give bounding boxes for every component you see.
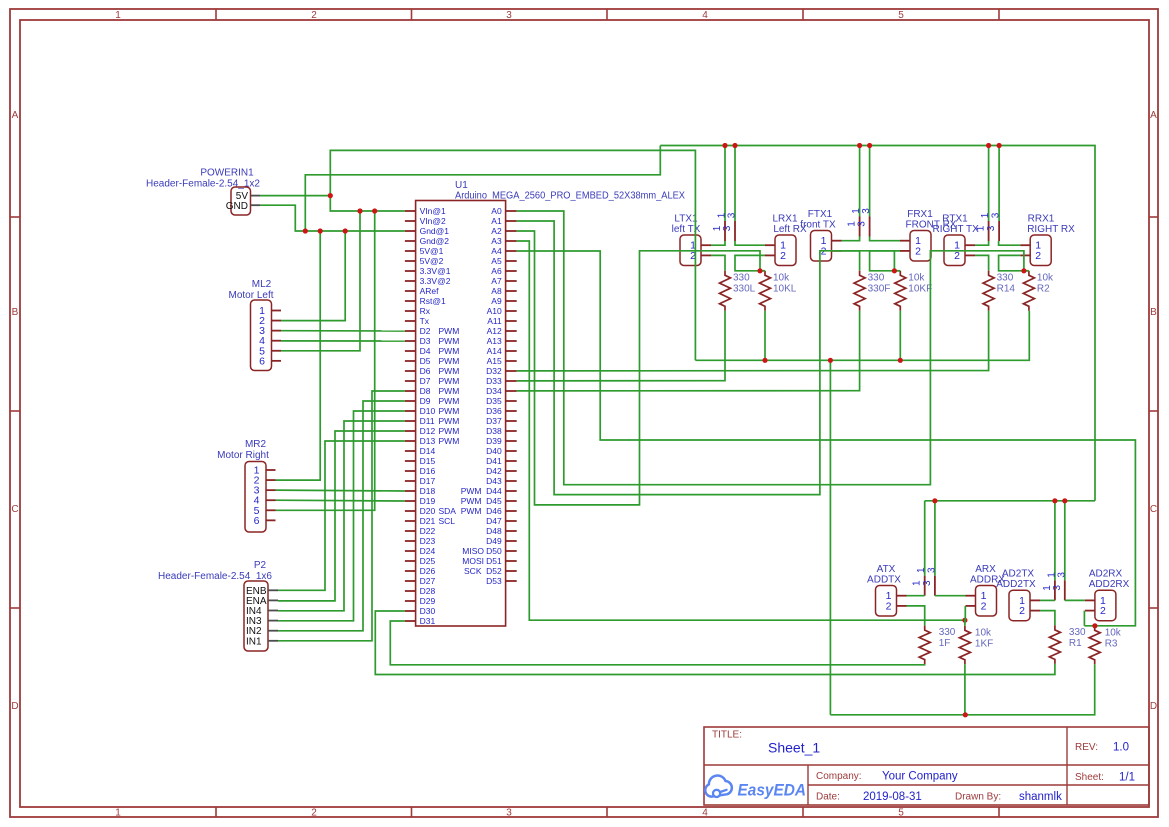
svg-text:1: 1	[115, 808, 121, 819]
connector AD2TX ADD2TX	[996, 569, 1036, 621]
svg-text:3: 3	[722, 225, 733, 231]
svg-text:3.3V@1: 3.3V@1	[420, 266, 451, 276]
header pin R3	[998, 146, 1000, 242]
svg-text:D52: D52	[486, 566, 502, 576]
svg-text:D9: D9	[420, 396, 431, 406]
wire R14 bottom to U1 D32	[517, 311, 989, 371]
svg-text:D45: D45	[486, 496, 502, 506]
svg-text:330: 330	[1069, 627, 1086, 638]
svg-text:10k: 10k	[1037, 272, 1054, 283]
wire lower pullup rail	[830, 664, 1094, 715]
svg-text:Header-Female-2.54_1x2: Header-Female-2.54_1x2	[146, 179, 260, 190]
wire RX pin1 to vertical pin 3	[999, 241, 1021, 245]
node A3 1KF junction	[962, 618, 967, 623]
svg-text:A7: A7	[491, 276, 502, 286]
wire U1 A4 to group5 divider	[517, 251, 1136, 626]
resistor 10KF 10k	[895, 271, 932, 311]
wire bus B lower groups	[925, 500, 1095, 502]
wire P2 IN3->D10	[278, 411, 405, 621]
wire TX pin2 down to 330 resistor	[711, 255, 725, 270]
wire GND from POWERIN1	[260, 205, 405, 231]
svg-text:D34: D34	[486, 386, 502, 396]
svg-text:AD2TX: AD2TX	[1002, 569, 1035, 580]
svg-text:Tx: Tx	[420, 316, 430, 326]
P2 pin ENA	[246, 596, 278, 607]
connector RRX1 RIGHT RX	[1027, 214, 1075, 266]
svg-text:SDA: SDA	[439, 506, 457, 516]
svg-text:330F: 330F	[868, 283, 891, 294]
svg-text:2: 2	[1035, 250, 1041, 262]
AD2RX pin 2	[1085, 605, 1106, 617]
svg-text:Date:: Date:	[816, 792, 840, 803]
wire ATX pin2 down to 1F resistor	[907, 606, 925, 626]
svg-text:A: A	[1150, 110, 1157, 121]
svg-text:A10: A10	[487, 306, 502, 316]
node A0 R2 junction	[1021, 268, 1026, 273]
header pin L3 pin number 3	[722, 212, 738, 231]
svg-text:D17: D17	[420, 476, 436, 486]
header pin A3n	[934, 501, 936, 596]
node bus1 tap	[857, 143, 862, 148]
svg-text:PWM: PWM	[439, 366, 460, 376]
wire GND to MR2 pin2	[276, 231, 321, 480]
svg-text:D19: D19	[420, 496, 436, 506]
node GND junction	[303, 228, 308, 233]
svg-text:D14: D14	[420, 446, 436, 456]
svg-text:D47: D47	[486, 516, 502, 526]
svg-text:RRX1: RRX1	[1028, 214, 1055, 225]
svg-text:EasyEDA: EasyEDA	[738, 781, 807, 800]
svg-text:AD2RX: AD2RX	[1089, 569, 1123, 580]
svg-text:PWM: PWM	[439, 406, 460, 416]
svg-text:D10: D10	[420, 406, 436, 416]
svg-text:A6: A6	[491, 266, 502, 276]
wire RX pin1 to vertical pin 3	[735, 241, 765, 245]
wire junction to 10k top	[760, 270, 765, 272]
svg-text:MISO: MISO	[462, 546, 484, 556]
svg-text:ML2: ML2	[252, 279, 272, 290]
svg-text:SCK: SCK	[464, 566, 482, 576]
wire GND riser to bus3	[305, 146, 660, 232]
svg-text:D22: D22	[420, 526, 436, 536]
node GND MR2 tap	[318, 228, 323, 233]
wire ATX pin1 to vertical pin 1	[907, 595, 925, 597]
U1 right pin names	[461, 206, 502, 586]
connector ARX ADDRX	[970, 564, 1005, 616]
svg-text:B: B	[12, 307, 19, 318]
svg-text:A3: A3	[491, 236, 502, 246]
svg-text:LTX1: LTX1	[674, 214, 698, 225]
svg-text:2: 2	[780, 250, 786, 262]
POWERIN1 pin GND	[226, 201, 260, 212]
svg-text:330: 330	[939, 627, 956, 638]
svg-text:D13: D13	[420, 436, 436, 446]
svg-text:A8: A8	[491, 286, 502, 296]
svg-text:A13: A13	[487, 336, 502, 346]
svg-text:D38: D38	[486, 426, 502, 436]
ML2 pin 1	[259, 305, 281, 317]
svg-text:front TX: front TX	[800, 220, 836, 231]
connector FTX1 front TX	[800, 209, 836, 261]
svg-text:330: 330	[868, 272, 885, 283]
svg-text:A1: A1	[491, 216, 502, 226]
resistor 10KL 10k	[760, 271, 797, 311]
RTX1 pin 1	[954, 240, 975, 252]
MR2 pin 1	[254, 465, 276, 477]
svg-text:1F: 1F	[939, 638, 951, 649]
svg-text:D21: D21	[420, 516, 436, 526]
wire 330F bottom to U1 D34	[517, 311, 860, 391]
svg-text:PWM: PWM	[439, 326, 460, 336]
node A1 10KF junction	[892, 268, 897, 273]
ATX pin 2	[886, 600, 907, 612]
node GND ML2 tap	[343, 228, 348, 233]
wire U1 D31 to 1F bottom	[390, 621, 924, 665]
wire P2 IN4->D11	[278, 421, 405, 611]
wire U1 D30 to R1 bottom	[375, 611, 1055, 675]
MR2 pin 4	[254, 495, 276, 507]
svg-text:D24: D24	[420, 546, 436, 556]
wire 10KF bottom	[899, 311, 901, 361]
node 10KF busA	[898, 358, 903, 363]
header pin R1 pin number 1	[976, 212, 992, 231]
svg-text:1: 1	[115, 10, 121, 21]
header pin A1n pin number 1	[912, 567, 928, 586]
svg-text:Drawn By:: Drawn By:	[955, 792, 1001, 803]
svg-text:left TX: left TX	[672, 224, 701, 235]
U1 left pin stubs	[405, 211, 416, 621]
ATX pin 1	[886, 590, 907, 602]
svg-text:2: 2	[886, 600, 892, 612]
svg-text:shanmlk: shanmlk	[1019, 791, 1062, 803]
svg-text:D33: D33	[486, 376, 502, 386]
node busB tap	[932, 498, 937, 503]
node busB tap	[1052, 498, 1057, 503]
svg-text:PWM: PWM	[439, 436, 460, 446]
svg-text:D49: D49	[486, 536, 502, 546]
svg-text:D37: D37	[486, 416, 502, 426]
wire U1 A0 to group3 divider	[517, 211, 1024, 485]
svg-text:PWM: PWM	[461, 486, 482, 496]
svg-text:D: D	[11, 701, 18, 712]
node 1KF lower rail	[963, 712, 968, 717]
svg-text:PWM: PWM	[439, 346, 460, 356]
node 10KL busA	[762, 358, 767, 363]
svg-text:MOSI: MOSI	[462, 556, 484, 566]
svg-text:Rst@1: Rst@1	[420, 296, 446, 306]
header pin L3	[734, 146, 736, 242]
svg-text:ADD2TX: ADD2TX	[996, 579, 1036, 590]
MR2 pin 2	[254, 475, 276, 487]
wire junction to 10k top	[895, 270, 900, 272]
svg-text:D31: D31	[420, 616, 436, 626]
wire TX pin1 to vertical pin 1	[975, 241, 989, 245]
RRX1 pin 2	[1020, 250, 1041, 262]
wire U1 A3 to group4 divider	[517, 241, 965, 620]
svg-text:P2: P2	[254, 560, 267, 571]
svg-text:A11: A11	[487, 316, 502, 326]
svg-text:D28: D28	[420, 586, 436, 596]
svg-text:D16: D16	[420, 466, 436, 476]
svg-text:SCL: SCL	[439, 516, 456, 526]
svg-text:D32: D32	[486, 366, 502, 376]
U1 right pin stubs	[506, 211, 517, 581]
svg-text:PWM: PWM	[439, 376, 460, 386]
svg-text:1KF: 1KF	[975, 638, 993, 649]
wire TX pin2 down to 330 resistor	[842, 251, 860, 271]
wire 5V riser to bus	[330, 150, 695, 360]
svg-text:D20: D20	[420, 506, 436, 516]
svg-text:D6: D6	[420, 366, 431, 376]
wire GND to ML2 pin2	[281, 231, 345, 321]
svg-text:D5: D5	[420, 356, 431, 366]
ML2 pin 2	[259, 315, 281, 327]
LRX1 pin 2	[765, 250, 786, 262]
svg-text:10k: 10k	[908, 272, 925, 283]
connector AD2RX ADD2RX	[1089, 569, 1130, 621]
svg-text:3: 3	[991, 212, 1002, 218]
svg-text:3: 3	[506, 10, 512, 21]
svg-text:U1: U1	[455, 180, 468, 191]
connector MR2 Motor Right	[217, 439, 269, 532]
svg-text:B: B	[1150, 307, 1157, 318]
svg-text:D48: D48	[486, 526, 502, 536]
svg-text:2: 2	[311, 10, 317, 21]
svg-text:3: 3	[986, 225, 997, 231]
resistor 1F 330	[919, 626, 956, 665]
svg-text:Gnd@1: Gnd@1	[420, 226, 450, 236]
svg-text:PWM: PWM	[439, 386, 460, 396]
svg-text:A5: A5	[491, 256, 502, 266]
svg-text:3: 3	[506, 808, 512, 819]
MR2 pin 6	[254, 515, 276, 527]
ML2 pin 3	[259, 325, 281, 337]
svg-text:D2: D2	[420, 326, 431, 336]
resistor R14 330	[983, 271, 1015, 311]
resistor R3 10k	[1089, 626, 1122, 665]
header pin A1n	[924, 501, 926, 596]
title block Sheet number	[1075, 772, 1135, 784]
svg-text:D7: D7	[420, 376, 431, 386]
P2 pin ENB	[246, 586, 278, 597]
wire 5V to MR2 pin5	[276, 211, 375, 510]
AD2TX pin 1	[1019, 595, 1040, 607]
frame column numbers	[115, 10, 904, 819]
svg-text:Gnd@2: Gnd@2	[420, 236, 450, 246]
svg-text:D43: D43	[486, 476, 502, 486]
P2 pin IN2	[246, 626, 278, 637]
wire AD2TX pin1 to vertical pin 1	[1040, 599, 1055, 601]
svg-text:D42: D42	[486, 466, 502, 476]
svg-text:A15: A15	[487, 356, 502, 366]
svg-text:Sheet_1: Sheet_1	[768, 740, 820, 756]
svg-text:A14: A14	[487, 346, 502, 356]
svg-text:2: 2	[1019, 605, 1025, 617]
svg-text:5: 5	[898, 808, 904, 819]
svg-text:1.0: 1.0	[1113, 742, 1129, 754]
svg-text:D: D	[1150, 701, 1157, 712]
svg-text:FTX1: FTX1	[808, 209, 833, 220]
wire P2 ENA->D12	[278, 431, 405, 601]
svg-text:3: 3	[922, 580, 933, 586]
ML2 pin 4	[259, 335, 281, 347]
svg-text:1/1: 1/1	[1119, 772, 1135, 784]
svg-text:10k: 10k	[773, 272, 790, 283]
header pin R3 pin number 3	[986, 212, 1002, 231]
svg-text:6: 6	[254, 515, 260, 527]
connector RTX1 RIGHT TX	[933, 214, 980, 266]
title block Company	[816, 771, 958, 783]
svg-text:PWM: PWM	[439, 426, 460, 436]
svg-text:ARX: ARX	[975, 564, 996, 575]
U1 left pin names	[420, 206, 460, 626]
svg-text:D35: D35	[486, 396, 502, 406]
svg-text:A12: A12	[487, 326, 502, 336]
AD2TX pin 2	[1019, 605, 1040, 617]
RTX1 pin 2	[954, 250, 975, 262]
svg-text:10KF: 10KF	[908, 283, 932, 294]
svg-text:LRX1: LRX1	[772, 214, 797, 225]
connector ATX ADDTX	[867, 564, 901, 616]
wire 5V to ML2 pin5	[281, 211, 360, 351]
svg-text:D36: D36	[486, 406, 502, 416]
svg-text:Sheet:: Sheet:	[1075, 772, 1104, 783]
svg-text:D27: D27	[420, 576, 436, 586]
svg-text:R2: R2	[1037, 283, 1050, 294]
svg-text:RIGHT TX: RIGHT TX	[933, 224, 980, 235]
wire GND bus1 top	[660, 146, 1095, 501]
IC U1 Arduino_MEGA_2560_PRO_EMBED_52X38mm_ALEX	[416, 180, 686, 626]
svg-text:TITLE:: TITLE:	[712, 730, 742, 741]
P2 pin IN1	[246, 636, 278, 647]
wire A2 jog to 10KL top	[760, 270, 765, 272]
svg-text:MR2: MR2	[245, 439, 267, 450]
svg-text:D30: D30	[420, 606, 436, 616]
wire TX pin1 to vertical pin 1	[842, 237, 860, 241]
svg-text:10k: 10k	[1105, 627, 1122, 638]
svg-text:330: 330	[997, 272, 1014, 283]
node 5V MR2 tap	[372, 208, 377, 213]
FRX1 pin 1	[900, 235, 921, 247]
frame row letters	[11, 110, 1157, 712]
LTX1 pin 1	[690, 240, 711, 252]
wire P2 IN2->D9	[278, 401, 405, 631]
wire U1 A2 to group1 divider	[517, 231, 760, 505]
svg-text:FRX1: FRX1	[907, 209, 933, 220]
AD2RX pin 1	[1085, 595, 1106, 607]
svg-text:330: 330	[733, 272, 750, 283]
node bus1 tap	[722, 143, 727, 148]
svg-text:D3: D3	[420, 336, 431, 346]
svg-text:5: 5	[898, 10, 904, 21]
header pin F1	[859, 146, 861, 237]
svg-text:A9: A9	[491, 296, 502, 306]
svg-text:PWM: PWM	[439, 336, 460, 346]
svg-text:D41: D41	[486, 456, 502, 466]
svg-text:3: 3	[1056, 572, 1067, 578]
header pin B1n pin number 1	[1042, 572, 1058, 591]
node busA drop	[828, 358, 833, 363]
svg-text:ATX: ATX	[877, 564, 896, 575]
svg-text:PWM: PWM	[439, 416, 460, 426]
node bus1 tap	[732, 143, 737, 148]
wire A0 jog to R2 top	[1024, 270, 1029, 272]
svg-text:A2: A2	[491, 226, 502, 236]
header pin B3n pin number 3	[1052, 572, 1068, 591]
connector LRX1 Left RX	[772, 214, 807, 266]
svg-text:2: 2	[915, 245, 921, 257]
svg-text:1: 1	[976, 225, 987, 231]
FTX1 pin 2	[821, 245, 842, 257]
LTX1 pin 2	[690, 250, 711, 262]
wire TX pin1 to vertical pin 1	[711, 241, 725, 245]
svg-text:2: 2	[311, 808, 317, 819]
svg-text:REV:: REV:	[1075, 742, 1098, 753]
wire U1 A1 to group2 divider	[517, 221, 895, 495]
svg-text:D46: D46	[486, 506, 502, 516]
svg-text:D25: D25	[420, 556, 436, 566]
svg-text:1: 1	[980, 212, 991, 218]
header pin B1n	[1054, 501, 1056, 601]
wire RX pin2 down to 10k junction	[735, 255, 765, 270]
svg-text:C: C	[1150, 504, 1157, 515]
svg-text:A4: A4	[491, 246, 502, 256]
resistor 330L 330	[720, 271, 756, 311]
svg-text:D53: D53	[486, 576, 502, 586]
node busB tap	[1062, 498, 1067, 503]
connector P2 Header-Female-2.54_1x6	[158, 560, 272, 651]
wire 330L bottom to U1 D33	[517, 311, 725, 381]
svg-text:3.3V@2: 3.3V@2	[420, 276, 451, 286]
svg-text:A0: A0	[491, 206, 502, 216]
svg-text:R14: R14	[997, 283, 1016, 294]
RRX1 pin 1	[1020, 240, 1041, 252]
wire 10KL bottom	[764, 311, 766, 361]
resistor 1KF 10k	[959, 626, 993, 665]
connector LTX1 left TX	[672, 214, 701, 266]
svg-text:PWM: PWM	[439, 396, 460, 406]
EasyEDA logo	[705, 776, 806, 800]
svg-text:C: C	[11, 504, 18, 515]
svg-text:D44: D44	[486, 486, 502, 496]
connector ML2 Motor Left	[228, 279, 273, 371]
wire 5V to U1 VIn@1	[330, 196, 405, 211]
title block	[704, 727, 1149, 805]
svg-text:R3: R3	[1105, 638, 1118, 649]
svg-text:D50: D50	[486, 546, 502, 556]
LRX1 pin 1	[765, 240, 786, 252]
svg-text:2: 2	[981, 600, 987, 612]
header pin L1	[724, 146, 726, 242]
wire RX pin2 down to 10k junction	[870, 251, 900, 271]
MR2 pin 3	[254, 485, 276, 497]
svg-text:6: 6	[259, 355, 265, 367]
P2 pin IN4	[246, 606, 278, 617]
resistor R1 330	[1049, 625, 1086, 664]
wire junction to 10k top	[1024, 270, 1029, 272]
svg-text:RTX1: RTX1	[942, 214, 968, 225]
wire P2 ENB->D13	[278, 441, 405, 590]
wire A1 jog to 10KF top	[894, 270, 900, 272]
header pin B3n	[1064, 501, 1066, 601]
P2 pin IN3	[246, 616, 278, 627]
connector FRX1 FRONT RX	[906, 209, 957, 261]
svg-text:GND: GND	[226, 201, 248, 212]
svg-text:D23: D23	[420, 536, 436, 546]
svg-text:10KL: 10KL	[773, 283, 797, 294]
svg-text:Rx: Rx	[420, 306, 431, 316]
wire AD2RX pin1 to vertical pin 3	[1065, 599, 1085, 601]
